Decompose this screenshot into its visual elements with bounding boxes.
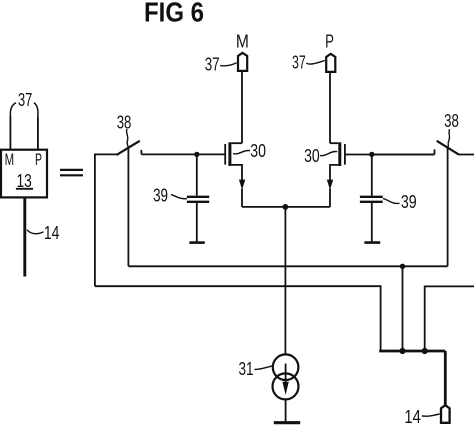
svg-text:38: 38 (117, 112, 132, 132)
svg-text:38: 38 (444, 111, 459, 131)
svg-text:14: 14 (404, 407, 421, 425)
svg-text:37: 37 (18, 90, 32, 110)
svg-text:P: P (35, 150, 42, 169)
svg-text:30: 30 (250, 141, 266, 161)
svg-text:37: 37 (292, 52, 306, 72)
svg-text:M: M (236, 32, 249, 52)
svg-text:39: 39 (401, 192, 417, 212)
svg-text:31: 31 (239, 359, 254, 379)
svg-text:P: P (325, 32, 334, 52)
svg-text:FIG 6: FIG 6 (144, 0, 204, 28)
svg-text:M: M (5, 150, 15, 169)
svg-text:39: 39 (153, 186, 168, 206)
svg-text:30: 30 (304, 146, 320, 166)
svg-text:37: 37 (205, 54, 220, 74)
svg-text:14: 14 (44, 223, 60, 243)
